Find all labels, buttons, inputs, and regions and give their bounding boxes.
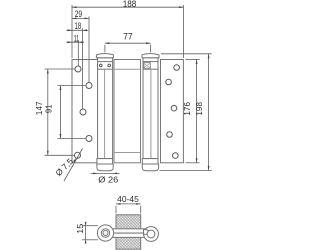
dimension 147 extension lines: [45, 68, 75, 70]
svg-text:40-45: 40-45: [117, 195, 139, 204]
dimension 91 line: [60, 86, 62, 139]
dimension 198 extension lines: [161, 53, 212, 55]
left plate hole 3: [80, 109, 86, 115]
right plate hole 2: [166, 79, 172, 85]
barrel 2 bottom cap: [142, 164, 158, 171]
right plate hole 1: [174, 65, 180, 71]
svg-text:176: 176: [182, 102, 192, 116]
svg-text:198: 198: [194, 102, 204, 116]
dimension 40-45 line: [116, 203, 141, 205]
bottom view: right knuckle outer: [144, 227, 159, 242]
bottom view: left knuckle ring: [101, 229, 109, 237]
barrel 2 hidden leaf edge line: [150, 69, 152, 158]
dimension 77 line: [105, 42, 151, 44]
left plate hole 5 (Ø7.5): [75, 152, 81, 158]
dimension 147 line: [47, 69, 49, 155]
left leaf plate: [72, 60, 105, 163]
right plate hole 5: [173, 153, 179, 159]
dimension 77 extension stubs: [104, 45, 106, 53]
barrel 1 bottom band: [97, 159, 113, 164]
dimension 15 extension lines: [82, 225, 98, 227]
barrel 1 top cap: [96, 54, 113, 58]
center plate top fold line: [114, 68, 141, 70]
barrel 2 spring coil marks: [144, 63, 150, 67]
barrel 2 spring window: [144, 63, 150, 69]
right leaf plate: [161, 60, 184, 163]
barrel 1 hidden leaf edge line: [104, 69, 106, 158]
bottom view: right knuckle pin: [147, 230, 155, 238]
barrel 1 adjusting collar: [98, 62, 113, 70]
dimension 40-45 extension lines: [115, 206, 117, 214]
svg-text:147: 147: [34, 101, 44, 115]
svg-text:29: 29: [75, 9, 82, 19]
dimension 15 line: [85, 222, 87, 243]
left plate hole 1: [75, 66, 81, 72]
left plate hole 4: [86, 136, 92, 142]
dimension 91 extension lines: [57, 85, 85, 87]
dimension 11 line: [66, 41, 84, 43]
center frame plate between barrels: [114, 60, 141, 163]
barrel 1 bottom cap: [97, 164, 113, 171]
center plate bottom fold line: [114, 152, 141, 154]
barrel 1 collar pin hole a: [100, 64, 103, 67]
spring barrel 2 body: [143, 58, 158, 159]
dimension 11 extension to near hole column: [77, 40, 79, 66]
svg-text:18: 18: [75, 21, 82, 31]
dimension diameter 26 line: [91, 172, 120, 174]
leader line diameter 7.5: [64, 149, 83, 182]
right plate hole 4: [167, 132, 173, 138]
dimension 18 extension to middle hole column: [82, 28, 84, 109]
dimension 176 line: [196, 60, 198, 163]
svg-text:91: 91: [44, 104, 54, 113]
dimension 198 line: [208, 54, 210, 171]
dimension 188 line: [72, 6, 183, 8]
dimension 29 extension to far hole column: [88, 16, 90, 82]
barrel 2 bottom band: [142, 159, 158, 164]
dimension 188 extension lines: [71, 5, 73, 58]
svg-text:77: 77: [123, 32, 133, 42]
right plate hole 3: [171, 105, 177, 111]
svg-text:Ø 26: Ø 26: [98, 175, 118, 185]
spring barrel 1 body: [98, 58, 113, 159]
dimension 18 line: [66, 29, 88, 31]
bottom view: left knuckle pin: [103, 231, 108, 236]
bottom view: upper leaf wedge into right knuckle: [144, 229, 152, 234]
dimension 176 extension lines: [186, 59, 200, 61]
bottom view: door section hatched: [116, 215, 141, 249]
svg-text:11: 11: [74, 33, 79, 43]
bottom view: left knuckle outer: [97, 225, 113, 241]
left plate hole 2: [86, 83, 92, 89]
barrel 2 collar with spring window: [143, 62, 158, 70]
dimension 29 line: [72, 17, 89, 19]
bottom view: upper leaf arm across door: [104, 229, 147, 233]
barrel 1 collar pin hole b: [108, 64, 111, 67]
barrel 2 top cap: [142, 54, 159, 58]
bottom view: lower leaf arm across door: [109, 233, 153, 237]
svg-text:188: 188: [123, 0, 137, 9]
svg-text:15: 15: [75, 223, 85, 233]
bottom view: lower leaf wedge into left knuckle: [105, 233, 110, 237]
